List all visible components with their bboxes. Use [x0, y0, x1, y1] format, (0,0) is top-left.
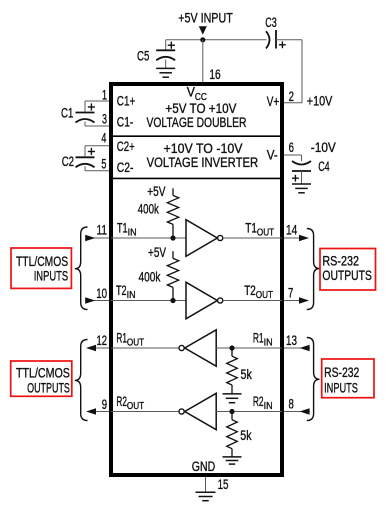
resistor 5k R1 lead2 — [231, 385, 233, 394]
C1 plus — [88, 106, 95, 108]
capacitor C4 — [292, 161, 311, 165]
svg-text:T1: T1 — [245, 220, 257, 235]
svg-text:R2: R2 — [116, 394, 127, 409]
svg-text:5: 5 — [101, 156, 106, 171]
wire R2 output — [111, 411, 179, 413]
wire node down to pin 16 — [202, 40, 204, 83]
arrow out of pin 7 — [299, 297, 309, 304]
wire pin 7 — [284, 300, 300, 302]
svg-text:7: 7 — [288, 285, 293, 300]
svg-text:T1: T1 — [117, 220, 128, 235]
box TTL/CMOS OUTPUTS — [11, 361, 72, 396]
svg-text:+5V TO +10V: +5V TO +10V — [165, 101, 236, 116]
svg-text:IN: IN — [127, 289, 136, 301]
C2 plus — [88, 151, 95, 153]
wire pin 9 lead — [96, 411, 110, 413]
node R1 junction — [229, 345, 234, 350]
svg-text:OUTPUTS: OUTPUTS — [322, 267, 372, 283]
resistor 400k T1 lead — [172, 188, 174, 195]
wire T1 output — [223, 237, 282, 239]
box TTL/CMOS INPUTS — [11, 248, 71, 288]
brace TTL/CMOS outputs — [75, 340, 88, 421]
svg-text:C3: C3 — [265, 15, 277, 30]
node T1 resistor junction — [170, 235, 175, 240]
capacitor C3 — [266, 31, 270, 48]
svg-text:6: 6 — [289, 140, 294, 155]
svg-text:C2: C2 — [62, 154, 74, 169]
svg-text:11: 11 — [97, 223, 108, 238]
wire R1 output — [111, 347, 179, 349]
svg-text:2: 2 — [289, 89, 294, 104]
svg-text:+5V INPUT: +5V INPUT — [178, 10, 233, 25]
svg-text:OUT: OUT — [257, 227, 275, 239]
arrow into pin 11 — [85, 235, 95, 242]
wire pin 10 lead — [86, 300, 109, 302]
wire pin 1 — [85, 100, 109, 102]
box RS-232 INPUTS — [322, 359, 374, 398]
svg-text:OUT: OUT — [256, 289, 274, 301]
op-amp buffer R2 — [185, 393, 217, 429]
svg-text:400k: 400k — [139, 270, 161, 285]
svg-text:+10V: +10V — [307, 93, 333, 108]
ground C4 — [292, 183, 311, 185]
wire pin 15 — [205, 477, 207, 492]
svg-text:C2+: C2+ — [117, 139, 135, 154]
svg-text:OUT: OUT — [127, 337, 145, 349]
box RS-232 OUTPUTS — [320, 249, 376, 291]
svg-text:+5V: +5V — [147, 184, 165, 199]
arrow into pin 10 — [85, 297, 95, 304]
ground 5k R1 — [223, 393, 242, 395]
brace RS-232 outputs — [307, 229, 320, 310]
wire pin 8 — [284, 411, 310, 413]
resistor 400k T2 — [167, 258, 178, 287]
svg-text:3: 3 — [102, 112, 107, 127]
wire C3 to corner — [276, 39, 302, 41]
wire R1 input — [216, 347, 282, 349]
svg-text:10: 10 — [96, 286, 107, 301]
svg-text:TTL/CMOS: TTL/CMOS — [16, 253, 68, 269]
capacitor C1 — [76, 112, 95, 114]
svg-text:C1-: C1- — [117, 114, 134, 129]
ground pin 15 — [196, 491, 216, 493]
wire pin 4 — [85, 145, 109, 147]
svg-text:OUT: OUT — [127, 400, 145, 412]
wire pin 14 — [284, 237, 300, 239]
node junction +5V — [200, 37, 205, 42]
capacitor C2 — [76, 156, 95, 158]
svg-text:5k: 5k — [241, 367, 252, 382]
svg-text:C2-: C2- — [117, 160, 134, 175]
IC body outline — [111, 84, 282, 475]
wire pin 11 lead — [86, 237, 109, 239]
resistor 5k R1 — [227, 356, 238, 385]
wire C5 stub — [165, 40, 167, 50]
svg-text:C1: C1 — [61, 106, 73, 121]
svg-text:12: 12 — [97, 333, 108, 348]
svg-text:+5V: +5V — [148, 245, 166, 260]
svg-text:IN: IN — [128, 227, 137, 239]
ground C5 — [156, 67, 175, 69]
divider voltage inverter — [113, 177, 280, 179]
resistor 400k T1 lead2 — [172, 224, 174, 238]
op-amp buffer T1 — [186, 220, 217, 257]
svg-text:TTL/CMOS: TTL/CMOS — [16, 365, 70, 381]
svg-text:4: 4 — [101, 130, 106, 145]
svg-text:5k: 5k — [240, 428, 251, 443]
wire T1 input — [111, 237, 186, 239]
arrow into pin 13 — [300, 345, 310, 352]
resistor 5k R2 — [227, 420, 238, 449]
supply arrow into node — [199, 26, 207, 35]
svg-text:8: 8 — [289, 396, 294, 411]
svg-text:+10V TO -10V: +10V TO -10V — [164, 141, 243, 156]
wire pin 13 — [284, 347, 310, 349]
wire pin 12 lead — [96, 347, 110, 349]
wire pin 6 down to C4 — [301, 155, 303, 161]
svg-text:V+: V+ — [267, 94, 279, 109]
C5 plus — [168, 44, 175, 46]
wire corner down to pin 2 — [301, 40, 303, 103]
wire pin 3 — [84, 122, 86, 127]
arrow out of pin 12 — [86, 345, 96, 352]
svg-text:V: V — [187, 85, 195, 100]
resistor 400k T2 lead2 — [172, 287, 174, 300]
svg-text:OUTPUTS: OUTPUTS — [27, 380, 70, 396]
svg-text:C4: C4 — [318, 159, 330, 174]
wire pin 5 — [84, 166, 86, 170]
C3 plus — [279, 44, 286, 46]
wire C4 to ground — [301, 171, 303, 184]
svg-text:VOLTAGE DOUBLER: VOLTAGE DOUBLER — [147, 115, 247, 130]
svg-text:GND: GND — [192, 459, 216, 474]
svg-text:VOLTAGE INVERTER: VOLTAGE INVERTER — [147, 155, 259, 170]
svg-text:15: 15 — [218, 477, 229, 492]
resistor 5k R1 lead — [231, 348, 233, 356]
wire T2 output — [223, 300, 282, 302]
arrow out of pin 14 — [299, 235, 309, 242]
C4 plus — [292, 177, 299, 179]
svg-text:R2: R2 — [253, 394, 264, 409]
svg-text:-10V: -10V — [311, 140, 336, 155]
svg-text:1: 1 — [102, 87, 107, 102]
op-amp buffer T2 — [186, 282, 217, 319]
svg-text:T2: T2 — [116, 283, 127, 298]
wire T2 input — [111, 300, 186, 302]
brace RS-232 inputs — [307, 338, 320, 421]
svg-text:16: 16 — [209, 67, 220, 82]
svg-text:IN: IN — [264, 400, 273, 412]
wire R2 input — [216, 411, 282, 413]
node R2 junction — [229, 409, 234, 414]
ground 5k R2 — [223, 456, 242, 458]
svg-text:C1+: C1+ — [117, 94, 136, 109]
svg-text:14: 14 — [286, 223, 298, 238]
wire C5 to ground — [165, 60, 167, 69]
svg-text:IN: IN — [264, 337, 273, 349]
op-amp buffer R1 — [185, 330, 217, 366]
svg-text:T2: T2 — [244, 283, 256, 298]
svg-text:13: 13 — [286, 333, 297, 348]
arrow out of pin 9 — [86, 408, 96, 415]
svg-text:INPUTS: INPUTS — [34, 267, 69, 283]
svg-text:INPUTS: INPUTS — [324, 380, 358, 396]
node T2 resistor junction — [170, 298, 175, 303]
svg-text:C5: C5 — [137, 48, 149, 63]
brace TTL/CMOS inputs — [75, 227, 88, 310]
svg-text:9: 9 — [102, 397, 107, 412]
wire pin 6 — [284, 154, 302, 156]
arrow into pin 8 — [300, 408, 310, 415]
svg-text:R1: R1 — [116, 330, 127, 345]
svg-text:V-: V- — [267, 147, 278, 162]
svg-text:R1: R1 — [253, 330, 264, 345]
svg-text:RS-232: RS-232 — [324, 364, 359, 380]
wire C5 to node to C3 — [166, 39, 267, 41]
resistor 5k R2 lead — [231, 412, 233, 420]
wire pin 2 — [284, 102, 303, 104]
resistor 400k T1 — [167, 195, 178, 224]
capacitor C5 — [156, 49, 175, 51]
resistor 400k T2 lead — [172, 251, 174, 258]
divider voltage doubler — [113, 135, 280, 137]
svg-text:400k: 400k — [138, 202, 159, 217]
resistor 5k R2 lead2 — [231, 449, 233, 457]
